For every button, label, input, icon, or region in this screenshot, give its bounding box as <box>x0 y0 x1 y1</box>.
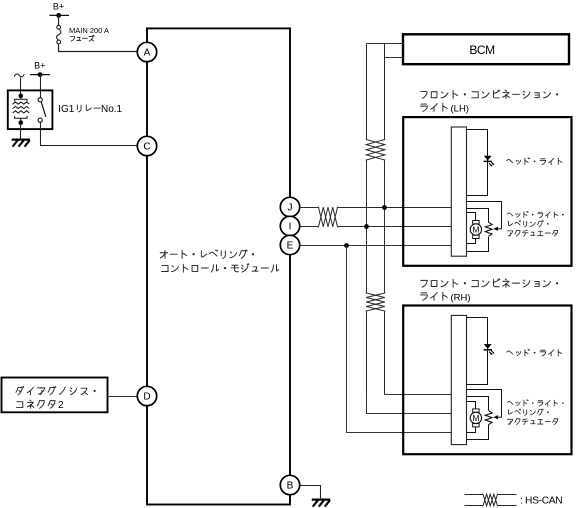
label head light RH <box>507 349 562 356</box>
svg-text:IG1: IG1 <box>58 104 75 115</box>
label front combination light RH line1 <box>421 279 559 288</box>
wire resistor loop RH <box>467 397 489 411</box>
svg-text:A: A <box>144 48 151 59</box>
svg-text:(LH): (LH) <box>451 104 469 115</box>
junction dot J row / CAN-H <box>382 205 387 210</box>
module name label line 1 (auto-leveling) <box>160 250 254 259</box>
module box: auto leveling control module <box>147 28 290 504</box>
connector I <box>280 216 299 235</box>
label leveling LH line2 <box>509 221 549 227</box>
wire relay switch to connector C <box>41 123 138 146</box>
wire motor loop RH <box>467 402 476 409</box>
wire E branch to RH light <box>347 246 452 433</box>
twisted pair connectors J/I to bus (HS-CAN) <box>300 207 452 227</box>
svg-text:M: M <box>472 225 479 235</box>
svg-text:E: E <box>287 241 294 252</box>
connector E <box>280 235 299 254</box>
relay switch contact (bottom) <box>38 118 42 122</box>
diagnosis connector label line 1 (diagnosis) <box>16 387 96 395</box>
svg-text:J: J <box>288 203 293 214</box>
junction dot E row branch <box>344 243 349 248</box>
relay switch contact (top) <box>38 98 42 102</box>
relay switch blade <box>41 102 46 117</box>
wire BCM pin 2 to CAN bus (right) <box>385 57 404 59</box>
wire squiggle to relay coil <box>20 78 22 96</box>
relay coil node (bottom) <box>19 120 24 125</box>
wire diagnosis connector to connector D <box>108 396 138 398</box>
wire fuse to connector A <box>59 44 138 52</box>
ground (relay coil) <box>12 140 31 147</box>
headlight lamp symbol LH <box>484 156 491 160</box>
relay coil node (top) <box>19 94 24 99</box>
wire CAN-H vertical x384 (to junction J and lower twist) <box>384 171 386 289</box>
potentiometer wiper arrow RH <box>496 416 502 418</box>
wire CAN-H into RH box <box>385 394 452 396</box>
svg-text:M: M <box>472 413 479 423</box>
label leveling RH line2 <box>509 409 549 415</box>
svg-text:I: I <box>289 222 292 233</box>
svg-text:B+: B+ <box>34 61 45 71</box>
svg-text:BCM: BCM <box>469 43 495 57</box>
twisted pair junction to RH light (HS-CAN) <box>366 289 385 395</box>
wire row E (connector E to LH light) <box>300 245 452 247</box>
twisted pair BCM to junction (HS-CAN) <box>366 44 385 171</box>
connector strip inside LH light <box>451 127 466 256</box>
motor M (leveling actuator) LH <box>473 221 479 224</box>
label actuator LH line3 <box>507 230 557 236</box>
diagnosis connector label line 2 (connector 2) <box>17 400 55 408</box>
label actuator RH line3 <box>507 419 557 425</box>
connector D <box>137 386 156 405</box>
relay K1 box (IG1 relay No.1) <box>8 90 53 129</box>
front combination light (LH) box <box>403 117 571 266</box>
junction dot I row / CAN-L <box>364 224 369 229</box>
svg-text:B: B <box>287 481 294 492</box>
continuation squiggle (wire to other circuit) <box>14 74 24 77</box>
potentiometer resistor LH <box>485 222 492 236</box>
headlight lamp symbol RH <box>484 344 491 348</box>
connector A <box>137 42 156 61</box>
wire BCM pin 1 to CAN bus (left) <box>367 43 404 45</box>
wire wiper feed RH <box>467 390 502 418</box>
svg-text:2: 2 <box>58 400 64 411</box>
wire CAN-L vertical x366 (to junction I and lower twist) <box>366 171 368 289</box>
svg-text:B+: B+ <box>53 2 64 12</box>
potentiometer resistor RH <box>485 411 492 425</box>
ground (module, at connector B) <box>312 500 331 507</box>
svg-text:(RH): (RH) <box>451 292 471 303</box>
svg-text:C: C <box>143 142 150 153</box>
wire headlight loop LH <box>467 130 488 196</box>
connector C <box>137 136 156 155</box>
wire wiper feed LH <box>467 202 502 229</box>
label head light leveling actuator RH line1 <box>507 400 563 406</box>
wire CAN-L into RH box <box>367 395 452 414</box>
wire connector B to ground <box>300 486 321 500</box>
label head light LH <box>507 158 562 165</box>
wire resistor loop LH <box>467 209 489 223</box>
fuse F1 MAIN 200 A (JIS symbol) <box>57 25 61 29</box>
svg-text:D: D <box>143 392 150 403</box>
svg-text:MAIN 200 A: MAIN 200 A <box>69 26 109 35</box>
label head light leveling actuator LH line1 <box>507 211 563 217</box>
potentiometer wiper arrow LH <box>496 228 502 230</box>
legend twisted pair symbol (HS-CAN) <box>465 494 517 506</box>
wire B+ to fuse <box>58 16 60 26</box>
label front combination light LH line2 <box>420 103 447 111</box>
diagnosis connector box <box>2 378 108 413</box>
front combination light (RH) box <box>403 306 571 455</box>
connector B <box>280 475 299 494</box>
svg-text:No.1: No.1 <box>101 104 123 115</box>
wire relay coil to ground <box>20 123 22 140</box>
wire headlight loop RH <box>467 318 488 385</box>
module name label line 2 (control module) <box>162 264 279 272</box>
label front combination light RH line2 <box>420 292 447 300</box>
BCM box <box>403 34 569 64</box>
wire B+ to relay switch <box>40 75 42 98</box>
label front combination light LH line1 <box>421 90 559 99</box>
wire motor loop LH <box>467 213 476 221</box>
connector strip inside RH light <box>451 315 466 444</box>
value label fuse (katakana huyu-zu) <box>70 35 94 41</box>
connector J <box>280 197 299 216</box>
motor M (leveling actuator) RH <box>473 409 479 412</box>
relay coil winding <box>15 96 27 123</box>
svg-text:: HS-CAN: : HS-CAN <box>520 496 562 507</box>
